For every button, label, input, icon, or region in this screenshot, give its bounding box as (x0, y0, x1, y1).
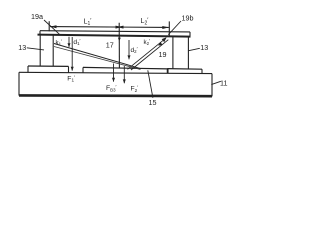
leader 13 left (27, 48, 44, 50)
arrowhead d1 down (68, 43, 71, 47)
lever right arm lower edge (131, 40, 168, 70)
svg-text:d1′: d1′ (73, 39, 80, 46)
base plate 11 outline (19, 72, 212, 96)
leader 19a (44, 20, 60, 35)
lever left arm upper edge (54, 44, 140, 69)
tick left end (48, 21, 50, 31)
svg-text:13: 13 (200, 43, 208, 52)
d2 arrow vertical (128, 40, 130, 59)
svg-text:F1′: F1′ (67, 75, 75, 82)
leader 11 (211, 81, 221, 84)
arrowhead F1 down (71, 67, 74, 71)
leader 15 (148, 70, 153, 98)
left post 13 (40, 35, 53, 66)
arrowhead L1 right (116, 26, 123, 29)
svg-text:19b: 19b (182, 13, 194, 22)
left foot block (28, 66, 69, 73)
lever left arm lower edge (54, 47, 141, 70)
svg-text:F2′: F2′ (131, 86, 139, 93)
leader 13 right (188, 48, 200, 51)
right post 13 (173, 36, 189, 69)
arrowhead k2 up-right (162, 37, 167, 42)
svg-text:15: 15 (149, 98, 157, 107)
svg-text:19: 19 (159, 50, 167, 59)
tick middle / center reference line (118, 23, 120, 68)
svg-text:d2′: d2′ (131, 47, 138, 54)
d1 arrow vertical (continues as F1 arrow) (68, 37, 70, 47)
middle plate 15 (83, 67, 168, 73)
svg-text:13: 13 (18, 43, 26, 52)
tick right end (168, 21, 170, 35)
svg-text:17: 17 (106, 40, 114, 49)
arrowhead small down-left on arm (158, 42, 162, 46)
dimension line L1-L2 (50, 26, 169, 29)
arrowhead L2 right (162, 26, 169, 29)
right foot block (167, 69, 202, 74)
leader 19b (168, 21, 181, 35)
small arrowhead on center line below beam (118, 38, 121, 42)
svg-text:19a: 19a (31, 12, 43, 21)
svg-text:11: 11 (220, 78, 227, 87)
lever right arm upper edge (128, 38, 166, 69)
arrowhead d2 down (128, 55, 131, 59)
arrowhead L2 left (117, 26, 124, 29)
FB3 force arrow (113, 64, 115, 82)
top beam (38, 31, 191, 37)
F2 force arrow (123, 66, 125, 83)
arrowhead L1 left (50, 25, 57, 28)
